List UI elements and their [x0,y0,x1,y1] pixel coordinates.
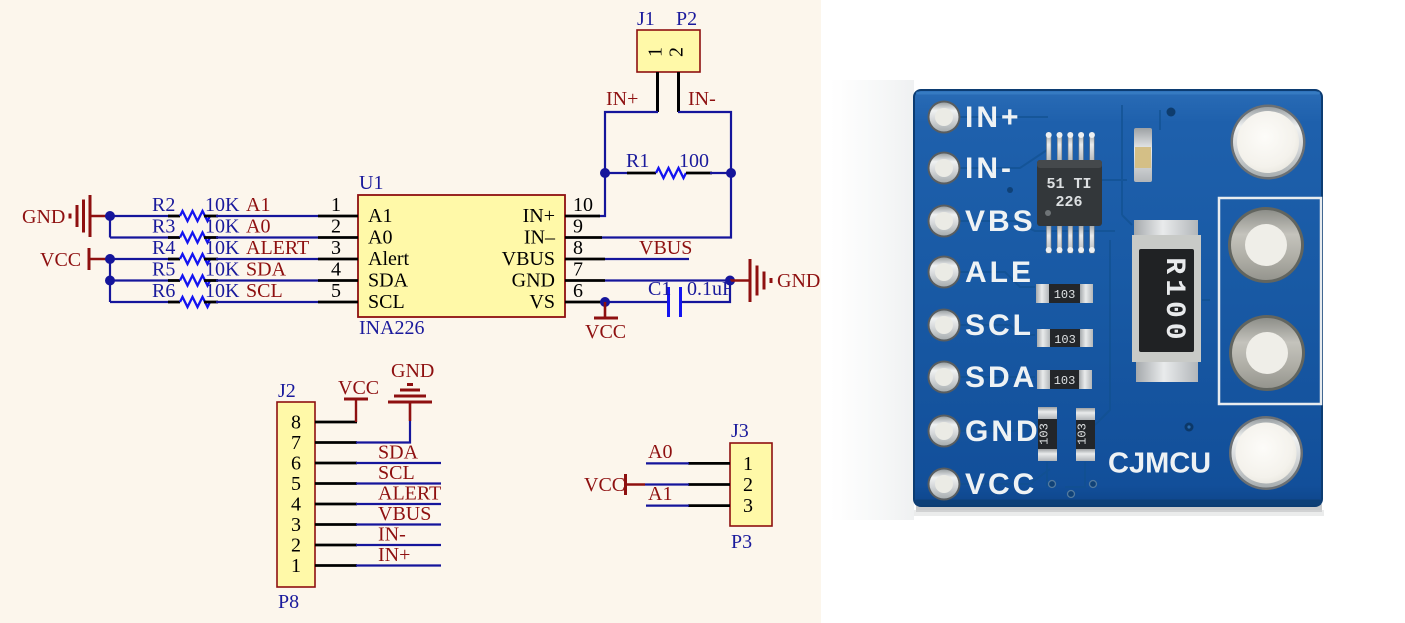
ground symbol at J2 [388,360,434,402]
J2 pin 4 ALERT [315,483,441,505]
svg-text:CJMCU: CJMCU [1108,448,1211,480]
U1 pin 2 [318,216,358,238]
svg-text:GND: GND [965,415,1041,448]
svg-text:2: 2 [666,47,688,57]
svg-text:VCC: VCC [965,468,1037,501]
svg-text:SDA: SDA [368,270,409,292]
U1 pin 7 [565,259,605,281]
smd resistor 103 at SCL row [1037,329,1093,347]
svg-text:A0: A0 [246,216,270,238]
svg-text:ALERT: ALERT [246,237,309,259]
vertical smd resistor 1 [1038,407,1058,461]
pad SDA [928,361,961,394]
svg-text:103: 103 [1054,288,1076,302]
svg-text:SCL: SCL [378,462,415,484]
node B junction [726,168,736,178]
resistor R5 [110,259,318,286]
svg-text:VBS: VBS [965,205,1036,238]
svg-text:ALERT: ALERT [378,483,441,505]
svg-text:VCC: VCC [584,474,625,496]
svg-text:R1: R1 [626,150,649,172]
U1 pin 6 [565,280,605,302]
svg-text:103: 103 [1076,423,1090,445]
svg-text:C1: C1 [648,278,671,300]
svg-text:1: 1 [291,555,301,577]
svg-text:GND: GND [777,270,820,292]
junction at ground node [725,276,735,286]
svg-text:SDA: SDA [965,361,1037,394]
svg-text:IN–: IN– [524,227,556,249]
svg-text:INA226: INA226 [359,317,425,339]
svg-text:8: 8 [291,412,301,434]
wire VBUS from pin 8 [605,258,689,260]
via bottom left 2 [1090,481,1097,488]
svg-text:J1: J1 [637,8,655,30]
svg-text:VCC: VCC [40,249,81,271]
ground symbol right [750,259,771,302]
svg-text:3: 3 [291,514,301,536]
svg-text:9: 9 [573,216,583,238]
wire J2 pin 8 to VCC [355,400,357,422]
mounting hole mid lower [1229,315,1305,391]
svg-text:51 TI: 51 TI [1046,176,1091,193]
U1 pin 5 [318,280,358,302]
J2 pin 5 SCL [315,462,441,484]
U1 pin 3 [318,237,358,259]
svg-text:226: 226 [1055,194,1082,211]
J2 pin 6 SDA [315,442,441,464]
svg-text:R6: R6 [152,280,175,302]
svg-text:VBUS: VBUS [502,248,555,270]
wire pin 7 to ground node [605,279,730,281]
resistor R1 [605,150,731,178]
svg-text:2: 2 [743,474,753,496]
pad GND [928,415,961,448]
connector J3 (P3) [730,420,772,553]
J2 pin 3 VBUS [315,503,441,525]
svg-text:U1: U1 [359,172,383,194]
pcb board [914,90,1322,506]
svg-text:P3: P3 [731,531,752,553]
svg-text:10K: 10K [205,216,240,238]
svg-text:10K: 10K [205,194,240,216]
svg-text:2: 2 [291,535,301,557]
svg-text:4: 4 [291,494,301,516]
svg-text:IN-: IN- [378,524,406,546]
wire into ground symbol [409,402,412,421]
pad SCL [928,309,961,342]
mounting hole top right [1231,105,1306,180]
svg-text:Alert: Alert [368,248,410,270]
power VCC at J2 [338,377,379,399]
svg-text:J2: J2 [278,380,296,402]
svg-text:SCL: SCL [368,291,405,313]
svg-text:IN+: IN+ [378,544,410,566]
svg-text:103: 103 [1054,333,1076,347]
pin 2 stub [677,72,680,112]
junction at U1 pin 6 / VS node [600,297,610,307]
wire GND node down to R3 row [109,216,111,238]
svg-text:SDA: SDA [378,442,419,464]
photo backdrop shading [830,80,914,520]
capacitor C1 0.1uF [648,278,733,317]
J2 pin 1 IN+ [315,544,441,566]
svg-text:IN+: IN+ [965,101,1022,134]
pad IN+ [928,101,961,134]
op-amp U1 INA226 [358,172,565,339]
svg-text:R3: R3 [152,216,175,238]
svg-text:2: 2 [331,216,341,238]
connector J1 (P2) [637,8,700,112]
svg-text:IN-: IN- [965,152,1014,185]
schematic background [0,0,821,623]
svg-text:1: 1 [645,47,667,57]
resistor R2 [110,194,318,221]
svg-text:SCL: SCL [246,280,283,302]
resistor R6 [110,280,318,307]
svg-text:ALE: ALE [965,256,1034,289]
pad ALE [928,256,961,289]
svg-text:7: 7 [573,259,583,281]
svg-text:GND: GND [512,270,555,292]
smd resistor 103 at SDA row [1037,370,1092,389]
svg-text:R2: R2 [152,194,175,216]
svg-text:VBUS: VBUS [639,237,692,259]
wire VCC node down to R6 row [109,259,111,302]
U1 pin 4 [318,259,358,281]
svg-text:10K: 10K [205,237,240,259]
via bottom left 1 [1049,481,1056,488]
svg-text:J3: J3 [731,420,749,442]
svg-text:SCL: SCL [965,309,1034,342]
svg-text:6: 6 [573,280,583,302]
SMD capacitor top [1134,128,1152,182]
J3 pin 1 A0 [646,441,730,463]
svg-text:4: 4 [331,259,341,281]
smd resistor 103 at ALE row [1036,284,1093,303]
svg-text:VCC: VCC [338,377,379,399]
via bottom left 3 [1068,491,1075,498]
svg-text:P2: P2 [676,8,697,30]
svg-text:103: 103 [1054,374,1076,388]
svg-text:A1: A1 [368,205,392,227]
svg-text:GND: GND [22,206,65,228]
vertical smd resistor 2 [1076,408,1096,461]
wire node B to U1 pin 9 [601,173,731,238]
junction GND node [105,211,115,221]
svg-text:VS: VS [529,291,555,313]
svg-text:5: 5 [331,280,341,302]
pad IN- [928,152,961,185]
svg-text:6: 6 [291,453,301,475]
svg-text:7: 7 [291,432,301,454]
J3 pin 3 A1 [646,483,730,506]
svg-text:3: 3 [331,237,341,259]
silkscreen box around holes [1219,198,1321,404]
svg-text:100: 100 [679,150,709,172]
svg-text:5: 5 [291,473,301,495]
pad VCC [928,468,961,501]
wire C1 to ground node [682,281,730,303]
svg-text:10K: 10K [205,280,240,302]
J3 pin 2 VCC [626,483,731,486]
svg-text:R5: R5 [152,259,175,281]
svg-text:GND: GND [391,360,434,382]
mounting hole mid upper [1228,207,1304,283]
U1 pin 8 [565,237,605,259]
wire to ground symbol [730,279,750,281]
U1 pin 1 [318,194,358,216]
U1 pin 9 [565,216,602,238]
pcb board shadow [916,504,1322,512]
resistor R4 [110,237,318,264]
svg-text:IN+: IN+ [523,205,555,227]
power VCC at J3 [584,474,626,496]
wire node A to U1 pin 10 [598,173,605,216]
svg-text:VCC: VCC [585,321,626,343]
via bottom center [1185,423,1194,432]
svg-text:1: 1 [331,194,341,216]
svg-text:R4: R4 [152,237,175,259]
svg-text:IN+: IN+ [606,88,638,110]
svg-text:103: 103 [1038,423,1052,445]
power VCC at pin 6 [585,302,626,343]
via near chip [1007,187,1013,193]
U1 pin 10 [565,194,600,216]
svg-text:A0: A0 [648,441,672,463]
wire J2 pin 7 to GND [356,421,410,443]
svg-text:8: 8 [573,237,583,259]
svg-text:R100: R100 [1158,257,1189,344]
pcb traces [960,105,1210,487]
svg-text:IN-: IN- [688,88,716,110]
pin 1 stub [656,72,659,112]
svg-text:1: 1 [743,453,753,475]
svg-text:A0: A0 [368,227,392,249]
svg-text:A1: A1 [648,483,672,505]
svg-text:P8: P8 [278,591,299,613]
power VCC left [40,248,110,271]
wire VS node to C1 [605,301,667,303]
connector J2 (P8) [277,380,315,613]
junction VCC node lower [105,276,115,286]
shunt resistor R100 [1132,220,1201,382]
ground symbol left [22,195,110,237]
J2 pin 7 stub [315,441,357,444]
svg-text:10: 10 [573,194,593,216]
svg-text:3: 3 [743,495,753,517]
silkscreen labels [965,101,1041,501]
wire J1 pin2 to node IN- [678,112,731,173]
via small top center [1167,108,1176,117]
svg-text:0.1uF: 0.1uF [687,278,733,300]
J2 pin 8 stub [315,421,357,424]
svg-text:A1: A1 [246,194,270,216]
svg-text:SDA: SDA [246,259,287,281]
wire J1 pin1 to node IN+ [605,112,658,173]
resistor R3 [110,216,318,243]
mounting hole bottom right [1229,416,1303,490]
svg-text:VBUS: VBUS [378,503,431,525]
svg-text:10K: 10K [205,259,240,281]
junction VCC node [105,254,115,264]
node A junction [600,168,610,178]
J2 pin 2 IN- [315,524,441,546]
IC chip U (INA226 marking 51 TI 226) [1037,132,1102,253]
pad VBS [928,205,961,238]
